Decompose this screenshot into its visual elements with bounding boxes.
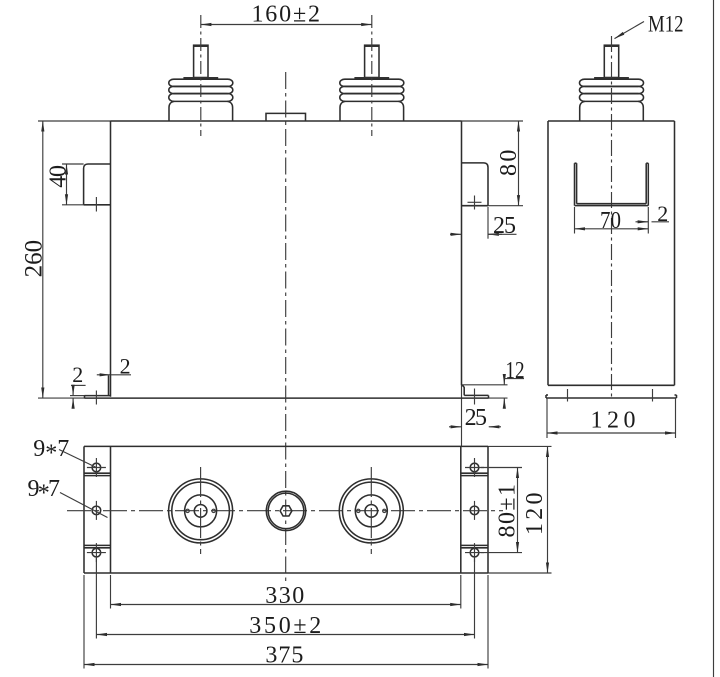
svg-text:2: 2 (72, 362, 83, 387)
svg-text:25: 25 (493, 213, 516, 239)
svg-text:330: 330 (265, 583, 304, 609)
svg-text:2: 2 (657, 201, 668, 226)
svg-text:9*7: 9*7 (28, 476, 61, 507)
svg-text:M12: M12 (648, 12, 684, 37)
svg-text:160±2: 160±2 (251, 2, 320, 28)
svg-text:40: 40 (46, 165, 72, 188)
svg-text:120: 120 (591, 408, 636, 434)
svg-text:12: 12 (505, 358, 524, 384)
svg-text:70: 70 (600, 208, 621, 234)
svg-text:375: 375 (265, 643, 303, 669)
svg-text:25: 25 (465, 405, 487, 431)
svg-text:2: 2 (120, 353, 131, 378)
svg-text:350±2: 350±2 (249, 613, 321, 639)
svg-text:80±1: 80±1 (495, 484, 521, 538)
svg-text:120: 120 (522, 492, 548, 535)
svg-text:260: 260 (21, 240, 48, 278)
